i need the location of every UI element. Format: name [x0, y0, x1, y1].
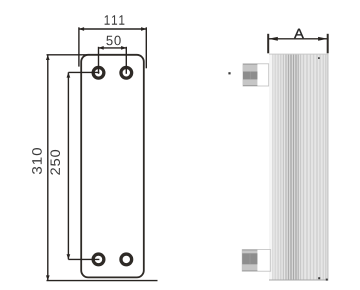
dimension 310: line: [47, 55, 49, 281]
dimension A: line: [268, 38, 328, 40]
dimension 111: arrowheads: [79, 27, 84, 31]
bottom connection stub (side view): [242, 250, 271, 272]
dimension A: extension ticks: [268, 34, 328, 54]
dimension 250: arrowheads: [67, 72, 71, 77]
speck in stack top right: [318, 57, 320, 59]
dimension 50: extension lines: [99, 47, 127, 74]
top connection stub (side view): [243, 64, 269, 86]
speck near top stub: [228, 72, 230, 74]
dimension 50: line: [99, 47, 127, 49]
dimension 310: arrowheads: [46, 55, 50, 60]
dimension 250: extension lines: [68, 72, 99, 259]
stack edges: [269, 53, 328, 55]
front view plate outline: [81, 55, 144, 278]
dimension 111: extension lines: [79, 27, 146, 68]
dimension 111: line: [79, 28, 146, 30]
stack stripes: [273, 54, 326, 280]
dimension 310: label (rotated): [32, 148, 42, 174]
dimension A: arrowheads: [268, 37, 278, 41]
dimension 50: label: [106, 36, 120, 46]
dimension 50: arrowheads: [99, 46, 104, 50]
plate stack (side view) body: [269, 54, 328, 281]
dimension A: label: [294, 29, 304, 39]
port hole bottom-left: [93, 254, 104, 265]
port hole top-left: [93, 67, 104, 78]
speck stack bottom right 2: [326, 279, 328, 281]
dimension 310: extension lines: [47, 55, 158, 281]
dimension 250: label (rotated): [50, 150, 60, 175]
port hole top-right: [121, 67, 132, 78]
dimension 250: line: [67, 72, 69, 259]
port hole bottom-right: [121, 254, 132, 265]
speck stack bottom right 1: [318, 277, 320, 279]
dimension 111: label: [105, 15, 125, 24]
